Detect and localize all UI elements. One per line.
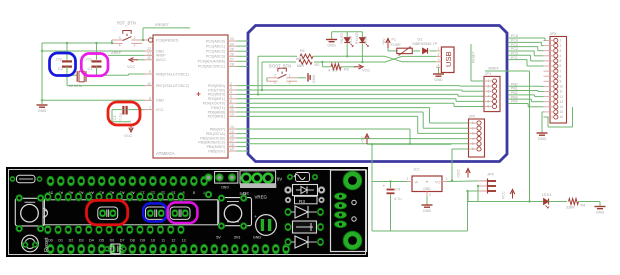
svg-text:21: 21: [147, 52, 151, 56]
svg-text:4: 4: [119, 43, 121, 47]
svg-text:PC4(ADC4/SDA): PC4(ADC4/SDA): [198, 60, 225, 64]
svg-text:11: 11: [230, 104, 234, 108]
svg-text:27: 27: [230, 58, 234, 62]
svg-text:12: 12: [171, 239, 175, 243]
svg-text:+: +: [254, 214, 257, 219]
svg-text:18: 18: [230, 143, 234, 147]
svg-text:R3: R3: [299, 199, 305, 204]
svg-text:PC5(ADC5/SCL): PC5(ADC5/SCL): [198, 65, 225, 69]
svg-text:BOOT_BTN: BOOT_BTN: [269, 64, 291, 69]
svg-text:PD7(AIN1): PD7(AIN1): [208, 115, 225, 119]
svg-text:13: 13: [230, 113, 234, 117]
svg-text:6: 6: [230, 99, 232, 103]
svg-text:LED2: LED2: [364, 36, 368, 44]
svg-text:5: 5: [230, 95, 232, 99]
svg-text:PB7(XTAL2/TOSC2): PB7(XTAL2/TOSC2): [156, 84, 189, 88]
svg-text:10: 10: [151, 239, 155, 243]
svg-text:11: 11: [560, 90, 564, 94]
svg-text:1: 1: [488, 79, 490, 83]
svg-text:1: 1: [134, 36, 136, 40]
svg-text:GND: GND: [423, 187, 431, 191]
svg-text:16: 16: [560, 115, 564, 119]
svg-text:8: 8: [193, 190, 195, 195]
svg-text:1: 1: [149, 36, 151, 40]
svg-text:C3: C3: [112, 116, 117, 121]
svg-text:6: 6: [560, 64, 562, 68]
svg-text:68R: 68R: [296, 56, 303, 61]
svg-text:68R: 68R: [297, 63, 304, 68]
svg-text:VCC: VCC: [124, 133, 132, 138]
svg-text:3V3: 3V3: [234, 235, 241, 239]
svg-text:USB: USB: [444, 51, 453, 67]
svg-text:GND: GND: [538, 137, 547, 141]
svg-text:AREF: AREF: [111, 50, 122, 55]
svg-text:+5V: +5V: [382, 38, 386, 45]
svg-text:JP4: JP4: [487, 172, 495, 177]
svg-text:3: 3: [438, 58, 440, 62]
svg-text:VREG: VREG: [255, 195, 268, 200]
svg-text:JP2: JP2: [469, 114, 476, 119]
svg-text:AVCC: AVCC: [156, 58, 166, 62]
svg-text:10: 10: [147, 82, 151, 86]
svg-text:D2: D2: [69, 239, 74, 243]
svg-text:28: 28: [230, 63, 234, 67]
svg-text:PB0(ICP): PB0(ICP): [210, 127, 225, 131]
svg-text:IC2: IC2: [414, 167, 420, 172]
svg-text:D9: D9: [140, 239, 145, 243]
svg-text:11: 11: [161, 239, 165, 243]
svg-text:C4: C4: [395, 187, 401, 192]
svg-text:D6: D6: [110, 239, 115, 243]
svg-text:6: 6: [488, 105, 490, 109]
svg-text:PD0(RXD): PD0(RXD): [208, 84, 225, 88]
svg-text:GND: GND: [253, 235, 262, 239]
svg-text:5: 5: [560, 59, 562, 63]
svg-text:23: 23: [230, 37, 234, 41]
svg-text:GND: GND: [596, 211, 605, 215]
svg-text:PC3(ADC3): PC3(ADC3): [206, 55, 225, 59]
svg-text:R2: R2: [315, 62, 320, 67]
svg-text:PC0(ADC0): PC0(ADC0): [206, 39, 225, 43]
svg-text:27p: 27p: [85, 56, 92, 61]
svg-text:GND: GND: [156, 99, 164, 103]
svg-text:F1: F1: [392, 37, 397, 42]
svg-text:9: 9: [560, 80, 562, 84]
svg-text:2: 2: [134, 43, 136, 47]
svg-text:5: 5: [472, 142, 474, 146]
svg-text:3: 3: [560, 49, 562, 53]
svg-text:PD6(AIN0): PD6(AIN0): [208, 110, 225, 114]
svg-text:7: 7: [560, 69, 562, 73]
svg-text:RST_BTN: RST_BTN: [117, 21, 136, 26]
svg-text:PB6(XTAL1/TOSC1): PB6(XTAL1/TOSC1): [156, 72, 189, 76]
svg-text:VCC: VCC: [502, 191, 506, 199]
svg-text:2: 2: [429, 193, 431, 197]
svg-text:PC2(ADC2): PC2(ADC2): [206, 50, 225, 54]
svg-text:22: 22: [147, 47, 151, 51]
svg-text:C2: C2: [58, 66, 64, 71]
svg-text:24: 24: [230, 42, 234, 46]
svg-text:GND: GND: [156, 49, 164, 53]
svg-text:GND: GND: [327, 44, 336, 48]
svg-text:14: 14: [230, 125, 234, 129]
svg-text:4: 4: [560, 54, 562, 58]
svg-text:PB1(OC1A): PB1(OC1A): [206, 132, 225, 136]
svg-text:+5V: +5V: [361, 136, 365, 143]
svg-text:/AREF: /AREF: [488, 67, 500, 71]
svg-text:12: 12: [560, 95, 564, 99]
svg-text:GND: GND: [221, 185, 229, 189]
svg-text:/RESET: /RESET: [155, 22, 170, 27]
svg-text:5V: 5V: [216, 235, 221, 239]
svg-text:R1: R1: [300, 48, 305, 53]
svg-text:VCC: VCC: [362, 68, 370, 73]
svg-text:14: 14: [560, 105, 564, 109]
svg-text:PD1(TXD): PD1(TXD): [208, 88, 225, 92]
svg-text:LED3: LED3: [349, 36, 353, 44]
svg-text:R4: R4: [581, 204, 586, 208]
svg-text:PD5(T1): PD5(T1): [211, 106, 225, 110]
svg-text:25: 25: [230, 47, 234, 51]
svg-text:TXLED: TXLED: [340, 33, 344, 44]
svg-text:7: 7: [149, 106, 151, 110]
svg-text:3: 3: [472, 132, 474, 136]
svg-text:13: 13: [182, 239, 186, 243]
svg-text:3: 3: [230, 86, 232, 90]
svg-text:RESET: RESET: [472, 52, 476, 63]
svg-text:13: 13: [560, 100, 564, 104]
svg-text:2: 2: [560, 44, 562, 48]
svg-text:ATMEGA: ATMEGA: [156, 151, 175, 156]
svg-text:3: 3: [446, 177, 448, 181]
svg-text:D1: D1: [58, 239, 63, 243]
svg-text:GND: GND: [312, 74, 316, 83]
svg-text:PD4(XCK/T0): PD4(XCK/T0): [203, 102, 225, 106]
svg-text:GND: GND: [423, 209, 432, 213]
svg-text:JP5: JP5: [550, 31, 557, 36]
svg-text:PC6(/RESET): PC6(/RESET): [156, 38, 178, 42]
svg-text:0.1u: 0.1u: [118, 113, 123, 121]
svg-text:26: 26: [230, 53, 234, 57]
svg-text:Reset: Reset: [44, 237, 50, 252]
svg-text:PC1(ADC1): PC1(ADC1): [206, 44, 225, 48]
svg-text:VO: VO: [435, 180, 441, 184]
svg-text:9V: 9V: [277, 177, 282, 182]
svg-text:1: 1: [472, 121, 474, 125]
svg-text:4: 4: [274, 81, 276, 85]
svg-text:9: 9: [149, 70, 151, 74]
svg-text:VCC: VCC: [127, 64, 135, 69]
svg-text:AREF: AREF: [156, 54, 166, 58]
svg-text:15: 15: [230, 130, 234, 134]
svg-text:3: 3: [274, 74, 276, 78]
svg-text:3: 3: [488, 89, 490, 93]
svg-text:R3: R3: [344, 67, 349, 72]
svg-text:5: 5: [488, 100, 490, 104]
svg-text:8: 8: [560, 74, 562, 78]
svg-text:27p: 27p: [56, 56, 63, 61]
svg-text:4: 4: [488, 95, 490, 99]
svg-text:D7: D7: [120, 239, 125, 243]
svg-text:LED1: LED1: [542, 192, 552, 197]
svg-text:20: 20: [147, 56, 151, 60]
svg-text:330R: 330R: [566, 206, 575, 210]
svg-text:2: 2: [488, 84, 490, 88]
svg-text:1: 1: [407, 177, 409, 181]
svg-text:D1: D1: [418, 37, 423, 42]
svg-text:12: 12: [230, 108, 234, 112]
svg-text:1: 1: [289, 74, 291, 78]
svg-text:GND: GND: [38, 109, 47, 113]
svg-text:VI: VI: [415, 180, 419, 184]
svg-text:+3V3: +3V3: [457, 170, 461, 179]
svg-text:2: 2: [230, 82, 232, 86]
svg-text:4: 4: [230, 91, 232, 95]
svg-text:D5: D5: [99, 239, 104, 243]
svg-text:D3: D3: [79, 239, 84, 243]
svg-text:RXLED: RXLED: [355, 32, 359, 44]
svg-text:4: 4: [438, 64, 440, 68]
svg-text:4: 4: [472, 137, 474, 141]
svg-text:C1: C1: [88, 66, 94, 71]
svg-text:D8: D8: [130, 239, 135, 243]
svg-text:MBRX0540-TP: MBRX0540-TP: [413, 42, 438, 46]
svg-text:1: 1: [438, 47, 440, 51]
svg-text:PB5(SCK): PB5(SCK): [208, 149, 225, 153]
svg-text:2: 2: [472, 126, 474, 130]
svg-text:15: 15: [560, 110, 564, 114]
svg-text:3V3: 3V3: [240, 192, 247, 196]
svg-text:PD3(INT1): PD3(INT1): [208, 97, 225, 101]
svg-text:PB4: PB4: [511, 100, 518, 104]
svg-text:PB4(MISO): PB4(MISO): [207, 145, 225, 149]
svg-text:PC1: PC1: [511, 56, 518, 60]
svg-text:JP1: JP1: [485, 71, 492, 76]
svg-text:19: 19: [230, 147, 234, 151]
svg-text:D4: D4: [89, 239, 94, 243]
svg-text:1: 1: [560, 39, 562, 43]
svg-text:3: 3: [119, 36, 121, 40]
svg-text:4.7K: 4.7K: [328, 68, 336, 73]
svg-text:GND: GND: [434, 78, 443, 82]
svg-text:+: +: [383, 184, 385, 188]
svg-text:6: 6: [472, 147, 474, 151]
svg-text:2: 2: [438, 53, 440, 57]
svg-text:VCC: VCC: [156, 108, 164, 112]
svg-text:2: 2: [289, 81, 291, 85]
svg-text:8: 8: [149, 97, 151, 101]
svg-text:PD2(INT0): PD2(INT0): [208, 93, 225, 97]
svg-text:4.7u: 4.7u: [394, 196, 402, 201]
svg-text:FUSE: FUSE: [391, 42, 402, 47]
svg-text:10: 10: [560, 85, 564, 89]
